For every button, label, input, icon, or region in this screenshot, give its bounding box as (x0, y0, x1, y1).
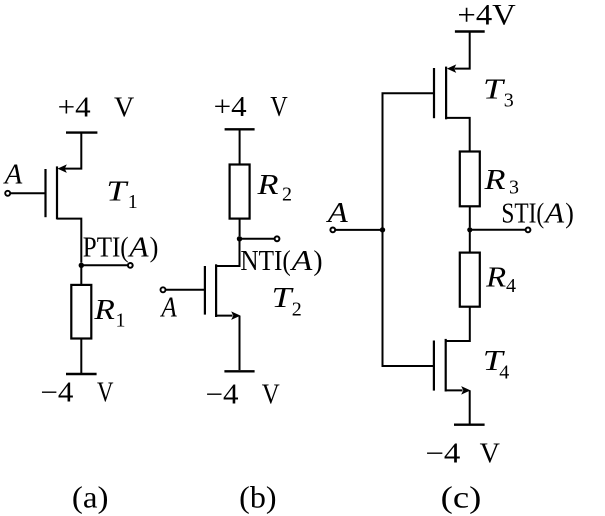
svg-text:4: 4 (506, 275, 516, 297)
svg-text:1: 1 (116, 310, 126, 332)
+4V supply label (a) (58, 92, 135, 123)
transistor T1 gate bar (44, 169, 46, 217)
svg-text:A: A (325, 198, 348, 229)
input terminal circle A (b) (161, 287, 166, 292)
-4V supply rail bar (a) (66, 373, 97, 375)
output terminal circle STI(A) (526, 228, 531, 233)
svg-text:V: V (262, 379, 280, 410)
svg-text:2: 2 (292, 299, 302, 321)
wire: gate lead T3 from bus (382, 92, 435, 94)
svg-text:A: A (3, 160, 23, 191)
svg-text:R: R (483, 165, 505, 196)
svg-text:−4: −4 (206, 379, 239, 410)
+4V supply rail bar (a) (66, 131, 97, 133)
node junction dot NTI(A) (237, 236, 242, 241)
wire: R2 to node NTI (239, 219, 241, 237)
wire: T2 source lead (216, 315, 232, 317)
svg-text:R: R (485, 262, 506, 293)
label NTI(A) (240, 246, 322, 277)
wire: input terminal to bus (335, 229, 382, 231)
-4V supply label (a) (40, 378, 113, 409)
svg-text:−4: −4 (425, 438, 460, 469)
transistor T2 gate bar (204, 266, 206, 315)
svg-text:): ) (313, 246, 322, 277)
wire: node to output terminal (a) (81, 264, 127, 266)
transistor T2 arrow (points right away from channel) (232, 312, 240, 319)
wire: rail to R2 (239, 129, 241, 164)
-4V supply label (c) (425, 438, 500, 469)
svg-text:1: 1 (128, 191, 138, 213)
transistor T4 channel (445, 339, 447, 392)
wire: gate lead T4 from bus (382, 365, 434, 367)
node junction dot STI(A) (467, 227, 472, 232)
svg-text:STI(: STI( (501, 198, 544, 229)
wire: T4 source to -4V rail (469, 390, 471, 423)
svg-text:V: V (480, 438, 500, 469)
svg-text:+4: +4 (214, 92, 247, 123)
svg-text:+4V: +4V (457, 0, 515, 31)
transistor T4 arrow (points right away from channel) (462, 387, 470, 394)
svg-text:3: 3 (504, 90, 514, 112)
node junction dot on bus (input A) (380, 227, 385, 232)
wire: R1 to -4V rail (80, 339, 82, 374)
node junction dot PTI(A) (79, 263, 84, 268)
output terminal circle NTI(A) (275, 236, 280, 241)
output terminal circle PTI(A) (128, 263, 133, 268)
resistor R4 body (460, 253, 480, 307)
resistor R1 body (71, 285, 91, 339)
svg-text:3: 3 (509, 177, 519, 199)
wire: rail to T1 drain (64, 133, 81, 169)
wire: T3 source to R3 (446, 118, 470, 152)
label T1 (106, 176, 137, 213)
wire: node to R4 (469, 230, 471, 253)
wire: node to resistor R1 (80, 265, 82, 285)
label T3 (483, 75, 514, 112)
svg-text:V: V (114, 92, 134, 123)
svg-text:(a): (a) (72, 479, 109, 514)
resistor R3 body (460, 152, 480, 207)
transistor T3 arrow (points left into channel) (448, 65, 456, 72)
-4V supply rail bar (c) (454, 424, 485, 426)
input bus line (c): connects T3 and T4 gates (382, 93, 384, 366)
svg-text:T: T (106, 176, 129, 207)
svg-text:NTI(: NTI( (240, 246, 290, 277)
transistor T3 channel (445, 67, 447, 120)
wire: R4 to T4 drain (446, 307, 470, 341)
svg-text:−4: −4 (40, 378, 73, 409)
transistor T3 gate bar (433, 68, 435, 118)
+4V supply label (b) (214, 92, 288, 123)
svg-text:A: A (289, 246, 313, 277)
svg-text:PTI(: PTI( (83, 232, 129, 263)
svg-text:(b): (b) (239, 479, 276, 514)
label R3 (483, 165, 519, 198)
-4V supply label (b) (206, 379, 280, 410)
transistor T2 channel (215, 264, 217, 317)
label T4 (483, 346, 509, 383)
input terminal circle A (a) (5, 191, 10, 196)
wire: node to output terminal (b) (240, 238, 275, 240)
resistor R2 body (230, 165, 250, 219)
svg-text:A: A (543, 198, 565, 229)
svg-text:): ) (150, 232, 159, 263)
label STI(A) (501, 198, 573, 229)
svg-text:R: R (256, 170, 278, 201)
svg-text:4: 4 (499, 361, 509, 383)
svg-text:V: V (97, 378, 114, 409)
+4V supply rail bar (b) (225, 128, 255, 130)
wire: T4 source lead (446, 389, 463, 391)
wire: node to T2 drain (216, 239, 239, 266)
transistor T4 gate bar (433, 341, 435, 391)
svg-text:(c): (c) (441, 479, 482, 514)
svg-text:T: T (483, 75, 506, 106)
svg-text:A: A (127, 232, 149, 263)
label T2 (272, 283, 302, 320)
label PTI(A) (83, 232, 159, 263)
wire: gate lead T1 (10, 192, 45, 194)
wire: gate lead T2 (166, 289, 205, 291)
svg-text:2: 2 (282, 183, 292, 205)
svg-text:R: R (93, 295, 115, 326)
label R4 (485, 262, 516, 297)
svg-text:V: V (270, 92, 288, 123)
wire: R3 to node STI (469, 206, 471, 227)
svg-text:A: A (160, 293, 178, 324)
+4V supply rail bar (c) (455, 30, 485, 32)
transistor T1 arrow (points left into channel) (58, 165, 66, 172)
input terminal circle A (c) (330, 228, 335, 233)
wire: rail to T3 drain (455, 32, 470, 69)
wire: node to output terminal (c) (470, 229, 526, 231)
wire: T2 source to -4V rail (239, 316, 241, 370)
label R1 (93, 295, 125, 332)
transistor T1 channel (56, 166, 58, 219)
svg-text:): ) (565, 198, 574, 229)
-4V supply rail bar (b) (224, 370, 254, 372)
wire: T1 source to node PTI (57, 219, 81, 263)
label R2 (256, 170, 292, 205)
svg-text:+4: +4 (58, 92, 91, 123)
